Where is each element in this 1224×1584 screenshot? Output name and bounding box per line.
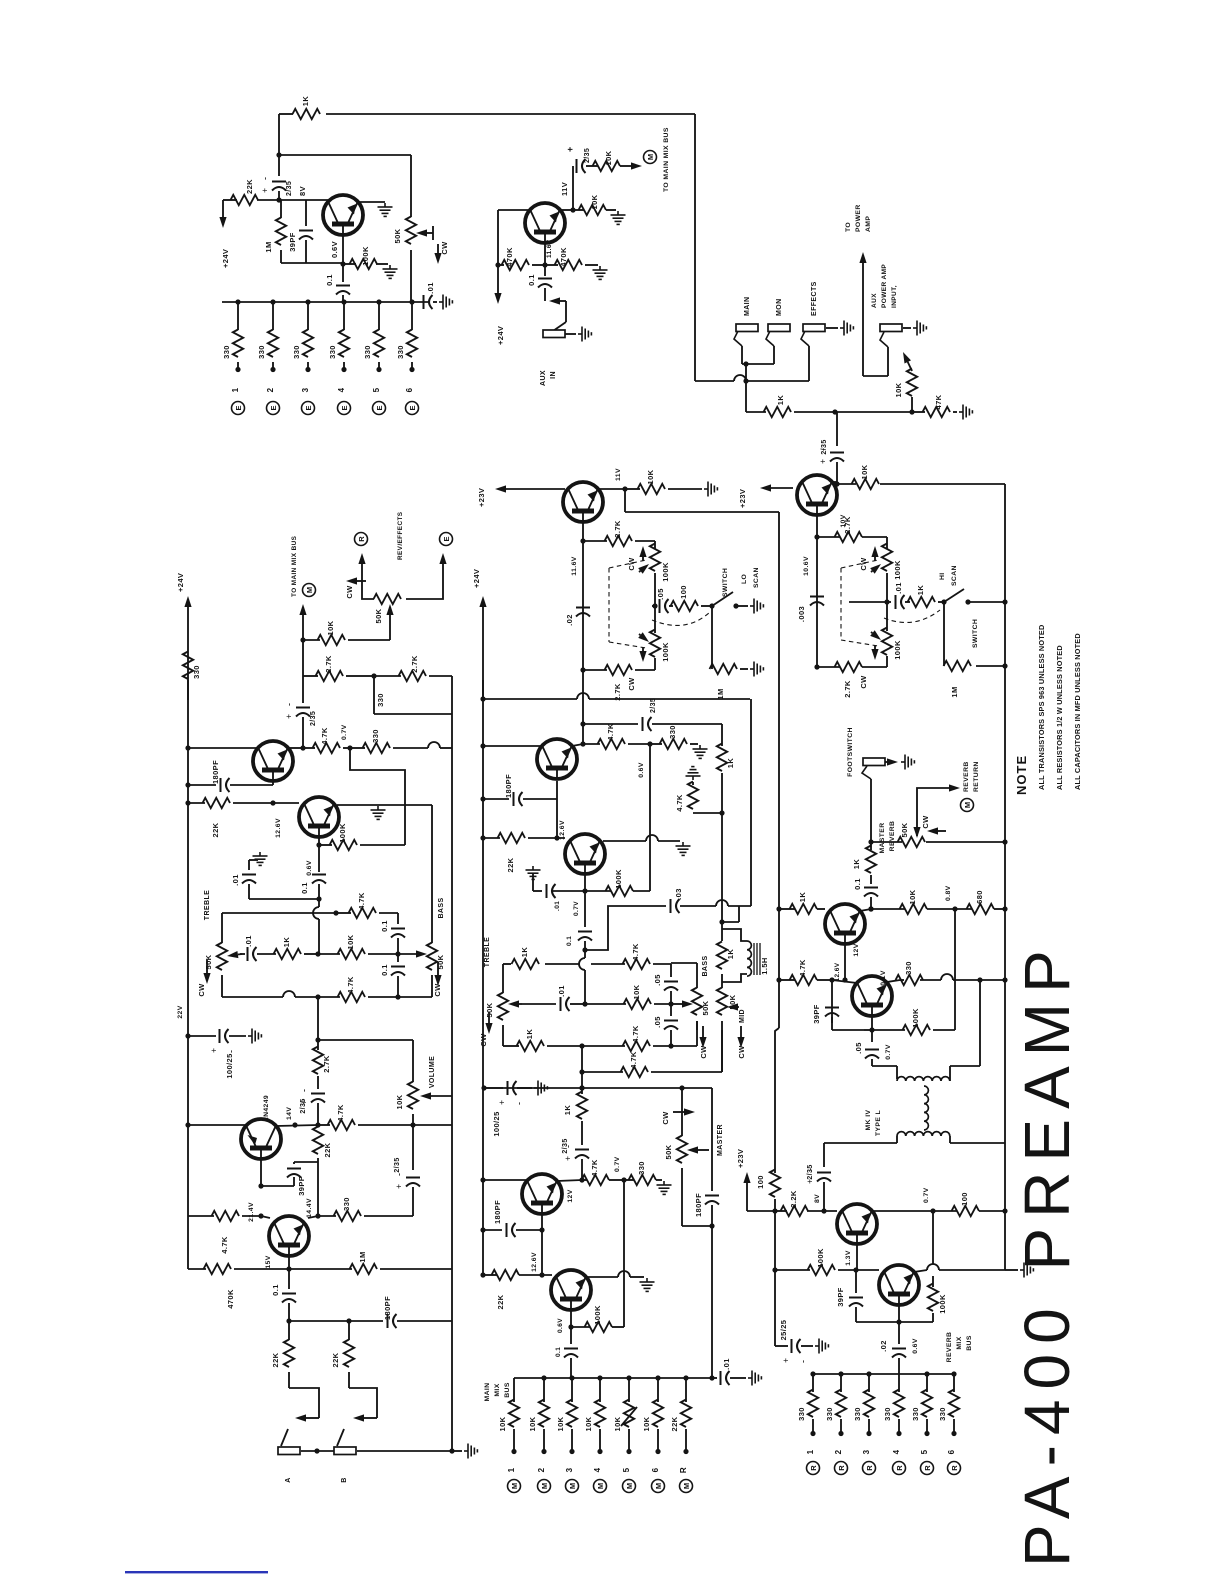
wire xyxy=(856,1321,933,1323)
svg-text:+24V: +24V xyxy=(496,326,505,345)
wire xyxy=(301,1450,334,1452)
arrow xyxy=(299,604,306,640)
svg-text:39PF: 39PF xyxy=(836,1287,845,1307)
wire xyxy=(840,1374,842,1392)
wire xyxy=(903,327,911,329)
svg-text:10K: 10K xyxy=(894,382,903,397)
terminal dot R4 xyxy=(896,1431,901,1436)
wire xyxy=(779,908,795,910)
svg-text:CW: CW xyxy=(699,1045,708,1059)
connector R5 xyxy=(921,1462,934,1475)
connector M1 xyxy=(508,1480,521,1493)
wire xyxy=(533,890,542,892)
jack MAIN xyxy=(736,324,758,332)
wire xyxy=(547,1045,582,1047)
svg-text:10.6V: 10.6V xyxy=(803,556,810,576)
wire master top xyxy=(582,1087,682,1089)
node 0.6V xyxy=(340,261,345,266)
svg-text:E: E xyxy=(408,405,417,410)
resistor 22K xyxy=(231,195,259,205)
wire xyxy=(584,970,586,1004)
svg-text:39PF: 39PF xyxy=(297,1176,306,1196)
svg-text:180PF: 180PF xyxy=(211,760,220,784)
svg-text:0.7V: 0.7V xyxy=(885,1044,892,1060)
wire xyxy=(293,1162,295,1164)
wire volume feed xyxy=(318,1039,413,1041)
svg-text:BUS: BUS xyxy=(504,1382,511,1398)
potentiometer 100K HI top xyxy=(882,544,892,572)
capacitor 0.1 xyxy=(336,286,350,295)
wire xyxy=(656,1179,662,1181)
svg-text:0.1: 0.1 xyxy=(380,920,389,932)
svg-text:6: 6 xyxy=(405,387,414,392)
wire collector xyxy=(498,209,530,211)
wire Q rr2 base lead xyxy=(898,1305,900,1322)
resistor 10K M6 xyxy=(653,1400,663,1428)
svg-text:1K: 1K xyxy=(726,949,735,960)
node master reverb xyxy=(868,839,873,844)
node QB4 c xyxy=(539,1272,544,1277)
svg-text:1K: 1K xyxy=(525,1029,534,1040)
svg-text:4.7K: 4.7K xyxy=(629,1051,638,1069)
arrow CW mreverb xyxy=(927,827,946,834)
resistor 1K drive B xyxy=(577,1092,587,1120)
ground 100K xyxy=(383,265,398,278)
svg-text:1.5H: 1.5H xyxy=(760,957,769,974)
wire xyxy=(896,1066,898,1079)
wire xyxy=(380,1268,452,1270)
wire xyxy=(886,537,888,549)
wire xyxy=(502,1025,504,1046)
node emitter QB1 xyxy=(580,741,585,746)
resistor 1K line xyxy=(866,846,876,874)
svg-text:+: + xyxy=(563,1156,573,1161)
wire xyxy=(862,666,887,668)
wire xyxy=(939,1269,1005,1271)
svg-text:2.7K: 2.7K xyxy=(843,680,852,698)
svg-text:22K: 22K xyxy=(271,1352,280,1367)
arrow xyxy=(295,1414,319,1421)
svg-text:-: - xyxy=(299,1089,309,1092)
wire xyxy=(671,1045,697,1047)
capacitor 180PF low A xyxy=(388,1314,397,1328)
capacitor 2/35 chA xyxy=(284,703,310,719)
wire xyxy=(979,980,981,1066)
node main row A xyxy=(185,1122,190,1127)
node xfmr feed xyxy=(977,977,982,982)
svg-text:AMP: AMP xyxy=(865,216,872,232)
jack MON tip contact xyxy=(766,331,774,346)
wire treble top row xyxy=(222,912,336,914)
capacitor .01 wiper A xyxy=(248,947,257,961)
node 10K/47K xyxy=(909,409,914,414)
wire xyxy=(653,963,671,965)
capacitor .01 xyxy=(424,295,433,309)
svg-text:10K: 10K xyxy=(604,150,613,165)
wire xyxy=(926,1419,928,1432)
arrow CW down HI xyxy=(871,645,878,660)
wire QB3 base lead xyxy=(541,1214,543,1275)
wire xyxy=(249,859,258,861)
ground effects jack xyxy=(840,321,853,336)
wire xyxy=(429,675,452,677)
resistor 1K xyxy=(293,109,321,119)
node master out xyxy=(709,1223,714,1228)
resistor 1M A xyxy=(350,1264,378,1274)
node effects tie xyxy=(743,378,748,383)
wire xyxy=(836,412,838,446)
svg-text:POWER: POWER xyxy=(855,204,862,232)
resistor 1K send xyxy=(764,407,792,417)
wire xyxy=(288,1303,290,1340)
svg-text:14V: 14V xyxy=(286,1107,293,1120)
wire xyxy=(898,1322,900,1344)
capacitor 39PF line xyxy=(825,1008,839,1017)
wire xyxy=(357,1450,452,1452)
wire xyxy=(670,1004,672,1016)
node HI mid xyxy=(884,599,889,604)
svg-text:.01: .01 xyxy=(231,874,240,886)
transistor QB3 xyxy=(522,1174,562,1214)
svg-text:4.7K: 4.7K xyxy=(675,794,684,812)
resistor 10K line xyxy=(900,904,928,914)
jack aux tip contact xyxy=(880,332,888,347)
junction bus M3 xyxy=(569,1375,574,1380)
node LO mid xyxy=(652,603,657,608)
svg-text:0.1: 0.1 xyxy=(271,1284,280,1296)
resistor 470K A xyxy=(204,1264,232,1274)
svg-text:25/25: 25/25 xyxy=(779,1320,788,1341)
wire xyxy=(398,996,432,998)
svg-text:4.7K: 4.7K xyxy=(336,1104,345,1122)
svg-text:ALL TRANSISTORS SPS 963 UNLES: ALL TRANSISTORS SPS 963 UNLESS NOTED xyxy=(1037,625,1046,790)
wire xyxy=(670,964,672,977)
svg-text:330: 330 xyxy=(192,665,201,679)
svg-text:4.7K: 4.7K xyxy=(798,959,807,977)
wire xyxy=(374,675,401,677)
capacitor 39PF xyxy=(299,231,313,240)
svg-text:+: + xyxy=(209,1048,219,1053)
node 14V xyxy=(292,1122,297,1127)
wire xyxy=(412,1114,414,1125)
terminal dot M3 xyxy=(569,1449,574,1454)
resistor 10K M5 xyxy=(624,1400,634,1428)
connector M6 xyxy=(652,1480,665,1493)
wire xyxy=(711,606,713,669)
wire xyxy=(774,1211,776,1346)
capacitor 0.1 B xyxy=(578,932,592,941)
wire base lead xyxy=(544,243,546,276)
arrow CW treble down xyxy=(203,960,210,984)
potentiometer 50K rev/effects xyxy=(374,594,402,604)
svg-text:CW: CW xyxy=(627,677,636,691)
svg-text:CW: CW xyxy=(440,241,449,255)
wire xyxy=(272,362,274,368)
wire xyxy=(609,1179,624,1181)
svg-text:SWITCH: SWITCH xyxy=(722,568,729,597)
wire xyxy=(681,1168,683,1226)
wire xyxy=(411,302,413,330)
wire xyxy=(681,1088,683,1136)
connector M chA xyxy=(303,584,316,597)
wire xyxy=(303,639,320,641)
wire xyxy=(278,114,280,155)
wire xyxy=(582,1071,623,1073)
svg-text:.01: .01 xyxy=(557,985,566,997)
wire xyxy=(343,302,345,330)
terminal dot MR xyxy=(683,1449,688,1454)
wire xyxy=(721,1030,723,1072)
wire wiper to return xyxy=(917,788,950,836)
capacitor 180PF master xyxy=(705,1196,719,1205)
diagonal pot mark M5 xyxy=(621,1407,637,1426)
wire xyxy=(289,1320,349,1322)
svg-text:100K: 100K xyxy=(893,640,902,660)
wire xyxy=(745,381,747,412)
terminal dot M1 xyxy=(511,1449,516,1454)
arrow CW up LO xyxy=(639,546,646,561)
wire hop xyxy=(577,693,589,699)
node .03 branch xyxy=(582,947,587,952)
svg-text:2/35: 2/35 xyxy=(310,711,317,726)
svg-text:2/35: 2/35 xyxy=(286,181,293,196)
svg-text:0.6V: 0.6V xyxy=(330,241,339,258)
svg-text:11V: 11V xyxy=(615,468,622,481)
terminal dot 1 xyxy=(235,367,240,372)
capacitor 2/35 mid B xyxy=(563,1145,589,1161)
wire xyxy=(652,605,655,607)
resistor 4.7K b3 xyxy=(623,1041,651,1051)
svg-text:CW: CW xyxy=(737,1045,746,1059)
connector R6 xyxy=(948,1462,961,1475)
junction input 3 xyxy=(305,299,310,304)
capacitor .01 HI xyxy=(896,595,905,609)
node 0.7V rr xyxy=(930,1208,935,1213)
jack input B xyxy=(334,1447,356,1455)
svg-text:0.1: 0.1 xyxy=(380,964,389,976)
svg-text:47K: 47K xyxy=(934,394,943,409)
svg-text:MON: MON xyxy=(776,298,783,316)
wire wiper drop xyxy=(389,612,391,640)
wire xyxy=(483,837,500,839)
svg-text:2.7K: 2.7K xyxy=(613,683,622,701)
potentiometer BASS 50K B xyxy=(692,988,702,1016)
svg-text:0.1V: 0.1V xyxy=(880,970,887,986)
arrow xyxy=(870,630,881,640)
wire xyxy=(368,996,398,998)
svg-text:CW: CW xyxy=(479,1033,488,1047)
jack footswitch tip contact xyxy=(862,766,871,779)
jack EFFECTS tip contact xyxy=(801,331,809,346)
wire xyxy=(938,601,944,603)
svg-text:+24V: +24V xyxy=(472,569,481,588)
node main row B xyxy=(480,1177,485,1182)
wire QA3 base lead xyxy=(260,1159,262,1186)
resistor 1M HI xyxy=(944,661,972,671)
arrow +24V down xyxy=(219,200,226,228)
ground 47K xyxy=(959,405,972,420)
svg-text:0.1: 0.1 xyxy=(527,274,536,286)
ground 4.7K B xyxy=(686,767,701,780)
wire xyxy=(624,1179,634,1181)
wire xyxy=(812,1374,814,1392)
wire Q line base lead xyxy=(844,944,846,980)
wire xyxy=(585,264,598,266)
wire xyxy=(583,723,638,725)
wire xyxy=(690,743,698,745)
wire xyxy=(237,302,239,330)
svg-text:39PF: 39PF xyxy=(812,1004,821,1024)
potentiometer VOLUME 10K xyxy=(408,1082,418,1110)
connector M4 xyxy=(594,1480,607,1493)
svg-text:12V: 12V xyxy=(853,943,860,956)
node master row xyxy=(579,1085,584,1090)
node QA1 base xyxy=(270,800,275,805)
node line out xyxy=(868,906,873,911)
svg-text:M: M xyxy=(510,1483,519,1489)
resistor 10K emitter xyxy=(579,205,607,215)
resistor 22K low B xyxy=(492,1270,520,1280)
resistor 100 LO xyxy=(671,601,699,611)
svg-text:100K: 100K xyxy=(938,1294,947,1314)
svg-text:0.6V: 0.6V xyxy=(306,860,313,876)
capacitor 25/25 xyxy=(781,1339,808,1363)
node feed line xyxy=(776,906,781,911)
wire xyxy=(870,897,872,909)
svg-text:MASTER: MASTER xyxy=(717,1124,724,1156)
svg-text:FOOTSWITCH: FOOTSWITCH xyxy=(847,727,854,777)
capacitor 39PF rr xyxy=(849,1298,863,1307)
capacitor .03 xyxy=(671,899,680,913)
resistor 2.7K LO bot xyxy=(605,665,633,675)
terminal dot 5 xyxy=(376,367,381,372)
wire xyxy=(257,199,279,201)
svg-text:100: 100 xyxy=(960,1192,969,1206)
svg-text:2/35: 2/35 xyxy=(584,148,591,163)
inductor 1.5H leads xyxy=(722,929,747,982)
node 1M HI tie xyxy=(1002,663,1007,668)
svg-text:+24V: +24V xyxy=(176,573,185,592)
wire hop xyxy=(428,742,440,748)
node 10.6V xyxy=(814,534,819,539)
svg-text:2: 2 xyxy=(537,1467,546,1472)
svg-text:E: E xyxy=(269,405,278,410)
wire xyxy=(240,953,245,955)
svg-text:5: 5 xyxy=(622,1467,631,1472)
svg-text:22K: 22K xyxy=(245,179,254,194)
transistor Q reverb return 1 xyxy=(837,1204,877,1244)
jack EFFECTS xyxy=(803,324,825,332)
wire xyxy=(317,1076,319,1089)
node emitter 11V xyxy=(570,207,575,212)
arrow +24V down xyxy=(494,265,501,304)
wire xyxy=(318,919,320,954)
terminal dot R1 xyxy=(810,1431,815,1436)
wire chain x583 xyxy=(582,670,584,744)
wire xyxy=(248,860,250,870)
wire xyxy=(817,979,825,981)
wire .03 feed xyxy=(585,906,666,950)
terminal dot M4 xyxy=(597,1449,602,1454)
wire xyxy=(832,1029,864,1031)
junction bus M6 xyxy=(655,1375,660,1380)
svg-text:0.7V: 0.7V xyxy=(614,1156,621,1172)
resistor 22K B xyxy=(498,833,526,843)
wire xyxy=(581,1159,583,1180)
wire xyxy=(317,1040,319,1050)
svg-text:2/35: 2/35 xyxy=(394,1157,401,1172)
node QB1 base xyxy=(554,835,559,840)
resistor 22K jack B xyxy=(344,1340,354,1368)
terminal dot R3 xyxy=(866,1431,871,1436)
wire mid bottom leg xyxy=(721,1021,723,1072)
wire xyxy=(654,1003,671,1005)
wire HI base chain xyxy=(816,515,818,667)
connector R1 xyxy=(807,1462,820,1475)
wire hop .03 row xyxy=(716,900,728,906)
wire xyxy=(307,362,309,368)
svg-text:PA-400 PREAMP: PA-400 PREAMP xyxy=(1011,940,1083,1567)
node 8V xyxy=(821,1208,826,1213)
transistor Q line amp xyxy=(825,904,865,944)
wire xyxy=(336,912,351,914)
svg-text:330: 330 xyxy=(904,961,913,975)
svg-text:12V: 12V xyxy=(567,1189,574,1202)
node 180PF A xyxy=(185,782,190,787)
wire xyxy=(348,639,390,641)
svg-text:21.4V: 21.4V xyxy=(248,1202,255,1222)
wire xyxy=(840,1419,842,1432)
svg-text:1M: 1M xyxy=(264,241,273,252)
wire xyxy=(955,908,972,910)
wire xyxy=(612,1326,624,1328)
wire xyxy=(863,375,888,377)
node 22K low B xyxy=(480,1272,485,1277)
ground aux jack xyxy=(578,327,591,342)
svg-text:NOTE: NOTE xyxy=(1014,755,1029,795)
wire xyxy=(953,1374,955,1392)
wire xyxy=(654,658,656,670)
ground .01 A xyxy=(253,852,268,865)
wire xyxy=(682,1225,712,1227)
transistor QB4 xyxy=(551,1270,591,1310)
svg-text:M: M xyxy=(305,587,314,593)
wire xyxy=(318,1124,330,1126)
capacitor 0.1 aux xyxy=(538,279,552,288)
svg-text:330: 330 xyxy=(938,1407,947,1421)
capacitor 0.1 A xyxy=(312,875,326,884)
wire xyxy=(976,665,1005,667)
resistor 330 B xyxy=(660,739,688,749)
wire xyxy=(295,996,318,998)
node volume bottom xyxy=(410,1122,415,1127)
svg-text:2.7K: 2.7K xyxy=(322,1055,331,1073)
terminal dot 2 xyxy=(270,367,275,372)
wire xyxy=(308,1216,318,1218)
ground rr row xyxy=(1020,1263,1033,1278)
wire xyxy=(261,1216,270,1218)
node 22K A xyxy=(185,800,190,805)
wire xyxy=(343,747,350,749)
capacitor 180PF low B xyxy=(507,1223,516,1237)
potentiometer MASTER REVERB 50K xyxy=(898,837,926,847)
capacitor 180PF B xyxy=(514,792,523,806)
svg-text:CW: CW xyxy=(197,983,206,997)
wire xyxy=(730,1377,746,1379)
resistor 10K M1 xyxy=(509,1400,519,1428)
wire xyxy=(747,1210,775,1212)
svg-text:2.2K: 2.2K xyxy=(789,1190,798,1208)
